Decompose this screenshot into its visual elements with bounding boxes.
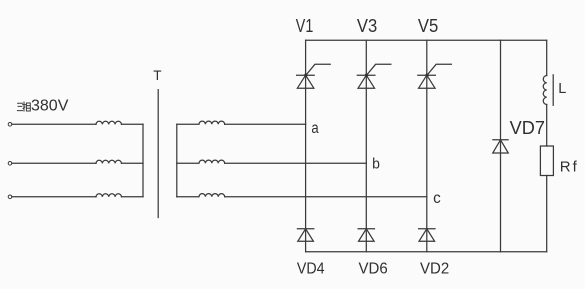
top DC bus xyxy=(306,39,547,41)
wire phase a to bridge xyxy=(225,123,306,125)
diode VD6 xyxy=(358,229,374,242)
load branch wire upper xyxy=(546,40,548,75)
svg-text:a: a xyxy=(311,120,319,137)
svg-text:VD7: VD7 xyxy=(510,118,545,138)
transformer secondary winding a xyxy=(177,121,225,124)
svg-text:VD4: VD4 xyxy=(297,260,325,277)
transformer secondary winding c xyxy=(177,194,225,197)
diode VD7 xyxy=(493,140,509,153)
thyristor V5 xyxy=(418,64,452,88)
svg-text:380V: 380V xyxy=(31,97,69,114)
inductor L coil xyxy=(543,76,546,105)
diode VD4 xyxy=(297,229,313,242)
transformer T core line xyxy=(157,90,159,218)
label 三相 (three-phase) xyxy=(17,102,30,111)
input terminal phase 1 xyxy=(8,123,12,127)
wire phase 1 to star point xyxy=(122,123,144,125)
secondary star-point bus xyxy=(176,124,178,197)
svg-text:VD2: VD2 xyxy=(420,260,449,277)
input terminal phase 2 xyxy=(8,162,12,166)
diode VD2 xyxy=(419,229,435,242)
svg-text:V5: V5 xyxy=(418,16,438,36)
transformer primary winding 2 xyxy=(96,160,121,163)
wire phase 3 to star point xyxy=(122,196,144,198)
wire phase 2 input xyxy=(12,162,96,164)
thyristor V3 xyxy=(357,64,391,88)
load branch wire lower xyxy=(546,176,548,252)
inductor L core bar xyxy=(552,75,554,106)
svg-text:b: b xyxy=(372,157,380,173)
wire phase 3 input xyxy=(12,196,96,198)
transformer primary winding 1 xyxy=(96,121,121,124)
wire inductor to resistor xyxy=(546,105,548,147)
wire phase c to bridge xyxy=(225,196,427,198)
bridge leg 3 wire xyxy=(426,40,428,252)
wire phase b to bridge xyxy=(225,162,367,164)
transformer secondary winding b xyxy=(177,160,225,163)
svg-text:L: L xyxy=(558,81,566,97)
transformer primary winding 3 xyxy=(96,194,121,197)
wire phase 1 input xyxy=(12,123,96,125)
primary star-point bus xyxy=(142,124,144,197)
freewheel branch wire xyxy=(500,40,502,252)
bottom DC bus xyxy=(306,251,547,253)
resistor Rf body xyxy=(540,146,553,176)
bridge leg 2 wire xyxy=(365,40,367,252)
thyristor V1 xyxy=(297,64,331,88)
input terminal phase 3 xyxy=(8,195,12,199)
svg-text:Rf: Rf xyxy=(560,158,579,175)
svg-text:VD6: VD6 xyxy=(359,260,388,277)
wire phase 2 to star point xyxy=(122,162,144,164)
bridge leg 1 wire xyxy=(305,40,307,252)
svg-text:c: c xyxy=(433,190,441,207)
svg-text:T: T xyxy=(153,68,161,83)
svg-text:V3: V3 xyxy=(357,16,377,36)
svg-text:V1: V1 xyxy=(296,16,314,36)
